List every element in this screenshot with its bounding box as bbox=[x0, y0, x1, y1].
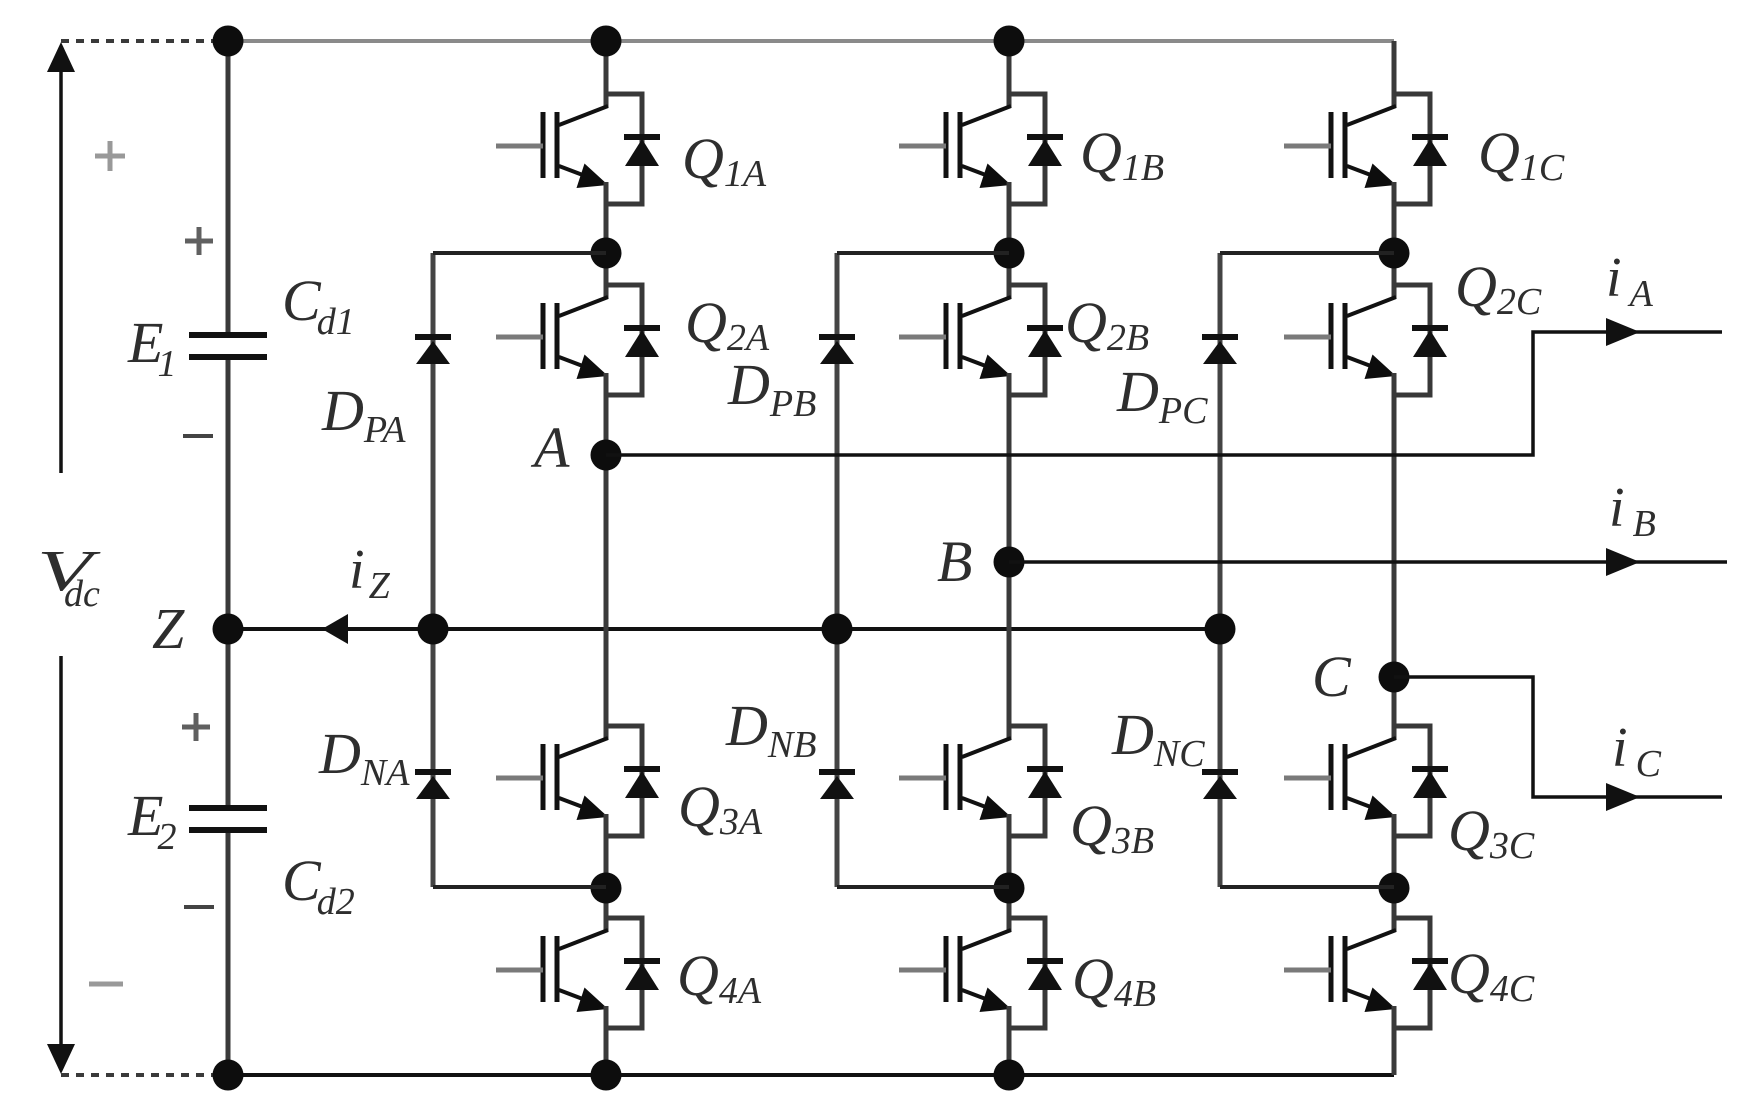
iB arrow bbox=[1606, 548, 1640, 576]
node: junction Q3C/Q4C bottom clamp point bbox=[1379, 873, 1410, 904]
iC arrow bbox=[1606, 783, 1640, 811]
diode DPA (clamp diode) bbox=[415, 337, 451, 364]
wire: phase A leg emitter segment to bottom rail bbox=[604, 1006, 609, 1075]
node: bottom rail / capacitor junction bbox=[213, 1060, 244, 1091]
transistor Q4C (IGBT with anti-parallel diode) bbox=[1284, 918, 1448, 1028]
polarity - for E1 bbox=[183, 434, 213, 438]
wire: phase B leg collector segment from top rail bbox=[1007, 41, 1012, 107]
svg-text:dc: dc bbox=[64, 573, 100, 615]
wire: phase A leg segment Q3-Q4 bbox=[604, 814, 609, 931]
svg-text:C: C bbox=[1312, 644, 1352, 709]
Vdc measurement arrow (double-headed) bbox=[47, 42, 75, 1074]
wire: clamp leg C top tie bbox=[1220, 251, 1394, 255]
node: junction Q1B/Q2B top clamp point bbox=[994, 238, 1025, 269]
diode DNC (clamp diode) bbox=[1202, 772, 1238, 799]
wire: clamp leg B vertical bbox=[835, 253, 840, 887]
transistor Q1B (IGBT with anti-parallel diode) bbox=[899, 94, 1063, 204]
node: junction Q1C/Q2C top clamp point bbox=[1379, 238, 1410, 269]
node: top rail / phase A junction bbox=[591, 26, 622, 57]
wire: phase B leg segment Q1-Q2 bbox=[1007, 182, 1012, 298]
transistor Q3A (IGBT with anti-parallel diode) bbox=[496, 726, 660, 836]
node: bottom rail / phase A junction bbox=[591, 1060, 622, 1091]
wire: neutral Z line bbox=[228, 627, 1220, 631]
transistor Q4B (IGBT with anti-parallel diode) bbox=[899, 918, 1063, 1028]
wire: phase C leg segment Q2-Q3 (through output node) bbox=[1392, 373, 1397, 739]
wire: dashed tie top bbox=[61, 39, 214, 43]
wire: phase C leg emitter segment to bottom rail bbox=[1392, 1006, 1397, 1075]
node Z (neutral point) bbox=[213, 614, 244, 645]
transistor Q2A (IGBT with anti-parallel diode) bbox=[496, 285, 660, 395]
wire: clamp leg A vertical bbox=[431, 253, 436, 887]
svg-text:A: A bbox=[530, 415, 570, 480]
polarity - for Vdc bbox=[89, 982, 123, 987]
iA arrow bbox=[1606, 318, 1640, 346]
wire: phase C leg collector segment from top rail bbox=[1392, 41, 1397, 107]
transistor Q4A (IGBT with anti-parallel diode) bbox=[496, 918, 660, 1028]
node: junction Q3B/Q4B bottom clamp point bbox=[994, 873, 1025, 904]
wire: capacitor leg middle bbox=[226, 360, 231, 805]
transistor Q1C (IGBT with anti-parallel diode) bbox=[1284, 94, 1448, 204]
wire: phase B leg segment Q3-Q4 bbox=[1007, 814, 1012, 931]
node: junction Q1A/Q2A top clamp point bbox=[591, 238, 622, 269]
wire: phase A leg segment Q2-Q3 (through output node) bbox=[604, 373, 609, 739]
svg-text:Z: Z bbox=[152, 596, 185, 661]
wire: phase A leg segment Q1-Q2 bbox=[604, 182, 609, 298]
wire: phase C leg segment Q3-Q4 bbox=[1392, 814, 1397, 931]
transistor Q1A (IGBT with anti-parallel diode) bbox=[496, 94, 660, 204]
node: junction Q3A/Q4A bottom clamp point bbox=[591, 873, 622, 904]
node B (phase output) bbox=[994, 547, 1025, 578]
wire: clamp leg B bottom tie bbox=[837, 885, 1009, 889]
polarity + for Vdc bbox=[95, 154, 125, 159]
capacitor Cd1 bbox=[189, 335, 267, 357]
node: clamp leg C to Z line junction bbox=[1205, 614, 1236, 645]
node: bottom rail / phase B junction bbox=[994, 1060, 1025, 1091]
label Vdc bbox=[37, 539, 101, 603]
node C (phase output) bbox=[1379, 662, 1410, 693]
wire: bottom DC bus rail bbox=[228, 1073, 1394, 1077]
node: clamp leg A to Z line junction bbox=[418, 614, 449, 645]
wire: clamp leg A top tie bbox=[433, 251, 606, 255]
wire: dashed tie bottom bbox=[61, 1073, 214, 1077]
transistor Q3C (IGBT with anti-parallel diode) bbox=[1284, 726, 1448, 836]
wire: clamp leg B top tie bbox=[837, 251, 1009, 255]
transistor Q2B (IGBT with anti-parallel diode) bbox=[899, 285, 1063, 395]
node: clamp leg B to Z line junction bbox=[822, 614, 853, 645]
svg-text:B: B bbox=[937, 529, 972, 594]
transistor Q3B (IGBT with anti-parallel diode) bbox=[899, 726, 1063, 836]
diode DPC (clamp diode) bbox=[1202, 337, 1238, 364]
node: top rail / capacitor junction bbox=[213, 26, 244, 57]
wire: clamp leg A bottom tie bbox=[433, 885, 606, 889]
diode DPB (clamp diode) bbox=[819, 337, 855, 364]
wire: phase A output bbox=[606, 332, 1722, 455]
wire: top DC bus rail bbox=[228, 39, 1394, 43]
node A (phase output) bbox=[591, 440, 622, 471]
wire: phase A leg collector segment from top rail bbox=[604, 41, 609, 107]
wire: clamp leg C vertical bbox=[1218, 253, 1223, 887]
node: top rail / phase B junction bbox=[994, 26, 1025, 57]
wire: phase B leg emitter segment to bottom rail bbox=[1007, 1006, 1012, 1075]
iZ arrow (points left) bbox=[322, 614, 348, 644]
wire: clamp leg C bottom tie bbox=[1220, 885, 1394, 889]
wire: phase B leg segment Q2-Q3 (through output node) bbox=[1007, 373, 1012, 739]
wire: phase C leg segment Q1-Q2 bbox=[1392, 182, 1397, 298]
wire: capacitor leg lower bbox=[226, 833, 231, 1075]
polarity - for E2 bbox=[184, 905, 214, 909]
transistor Q2C (IGBT with anti-parallel diode) bbox=[1284, 285, 1448, 395]
diode DNB (clamp diode) bbox=[819, 772, 855, 799]
wire: capacitor leg upper bbox=[226, 41, 231, 332]
wire: phase B output bbox=[1009, 560, 1727, 564]
capacitor Cd2 bbox=[189, 808, 267, 830]
polarity + for E2 bbox=[182, 725, 210, 730]
polarity + for E1 bbox=[185, 239, 213, 244]
diode DNA (clamp diode) bbox=[415, 772, 451, 799]
wire: phase C output bbox=[1394, 677, 1722, 797]
